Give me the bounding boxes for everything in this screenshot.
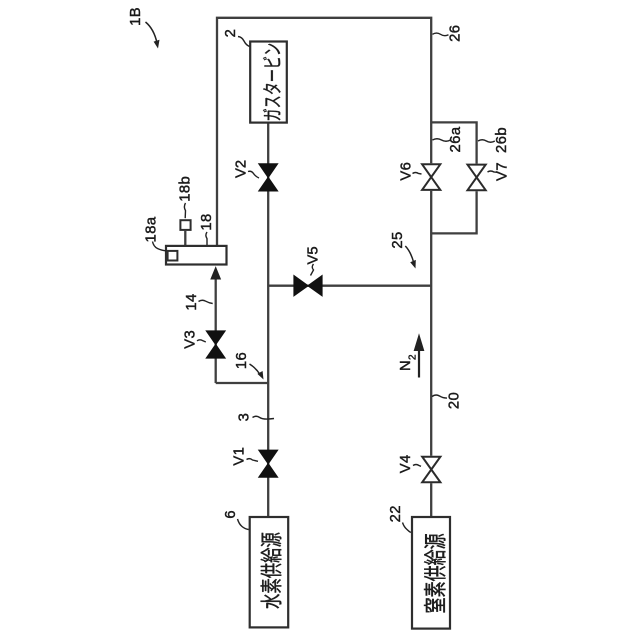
leader for 26a <box>433 139 451 142</box>
wire: connector 18b to 18 <box>184 231 186 246</box>
wire: purge branch 25 with V5 <box>268 285 431 287</box>
svg-text:V7: V7 <box>495 162 511 181</box>
svg-text:3: 3 <box>237 413 253 422</box>
leader for 14 <box>199 300 213 303</box>
leader for V6 <box>413 173 422 175</box>
svg-text:V3: V3 <box>182 330 198 349</box>
svg-text:2: 2 <box>408 354 419 360</box>
leader for V2 <box>248 171 259 178</box>
svg-text:N: N <box>398 360 414 371</box>
leader for V7 <box>488 171 498 172</box>
svg-text:20: 20 <box>446 392 462 409</box>
leader for V4 <box>413 465 421 467</box>
svg-text:1B: 1B <box>128 7 144 26</box>
svg-text:25: 25 <box>390 231 406 248</box>
arrow into vent part 18 <box>211 268 220 280</box>
svg-text:V1: V1 <box>231 447 247 466</box>
part 18b square <box>180 220 190 230</box>
valve V1 (filled) <box>259 450 278 477</box>
leader arrow for 16 <box>250 364 261 375</box>
svg-text:18a: 18a <box>144 216 160 242</box>
leader for 18b <box>184 203 185 218</box>
leader for 2 <box>238 37 250 47</box>
svg-text:22: 22 <box>388 505 404 522</box>
hydrogen supply box 6 <box>250 517 289 627</box>
valve V2 (filled) <box>259 164 278 191</box>
leader arrow for 1B <box>146 22 158 43</box>
leader for 20 <box>432 395 447 398</box>
wire: hydrogen main line 3 (turbine to hydrogen box) <box>267 123 269 518</box>
wire: bypass 26b below V7 + bottom <box>431 191 476 233</box>
vent part box 18 <box>166 246 227 265</box>
svg-text:V5: V5 <box>306 246 322 264</box>
valve V5 (filled, horizontal) <box>294 276 322 296</box>
leader for 26 <box>433 33 449 36</box>
svg-text:26b: 26b <box>494 127 510 153</box>
svg-text:26a: 26a <box>448 126 464 152</box>
nitrogen supply label text <box>424 534 445 613</box>
leader arrow for 25 <box>405 246 414 263</box>
wire: line 20 below V4 to nitrogen box <box>430 483 432 517</box>
valve V6 (open) <box>422 164 440 190</box>
hydrogen supply label text <box>261 533 282 609</box>
svg-text:V2: V2 <box>234 160 250 178</box>
wire: vent line 26 (left vertical + top horizontal + right vertical to V6) <box>217 18 431 246</box>
valve V3 (filled) <box>206 331 225 358</box>
svg-text:6: 6 <box>223 510 239 519</box>
leader for 26b <box>478 140 495 143</box>
wire: bypass 26b top + right down to V7 <box>431 122 476 163</box>
leader for 22 <box>403 523 411 533</box>
svg-text:26: 26 <box>447 25 463 42</box>
svg-text:V6: V6 <box>399 162 415 181</box>
leader for 18 <box>206 232 207 245</box>
wire: junction 16 horizontal <box>216 382 269 384</box>
wire: line 26 between V6 and V4 <box>430 191 432 456</box>
valve V7 (open) <box>468 165 486 191</box>
leader for V5 <box>311 264 314 276</box>
leader for 18a <box>153 242 167 251</box>
N2 flow arrow <box>414 335 423 378</box>
wire: line 14 through V3 up to arrow <box>215 278 217 383</box>
svg-text:V4: V4 <box>398 454 414 473</box>
leader for V3 <box>197 340 206 342</box>
valve V4 (open) <box>422 457 440 483</box>
svg-text:18b: 18b <box>178 176 194 202</box>
svg-text:18: 18 <box>199 213 215 230</box>
label N2 <box>398 354 419 371</box>
gas turbine box 2 <box>250 42 287 123</box>
svg-text:16: 16 <box>234 352 250 369</box>
leader for V1 <box>247 459 259 462</box>
svg-text:2: 2 <box>223 29 239 38</box>
gas turbine label text <box>263 44 281 120</box>
nitrogen supply box 22 <box>412 517 450 629</box>
leader for 3 <box>253 416 275 419</box>
svg-text:14: 14 <box>184 293 200 310</box>
part 18a square <box>168 251 178 261</box>
leader for 6 <box>238 519 249 530</box>
